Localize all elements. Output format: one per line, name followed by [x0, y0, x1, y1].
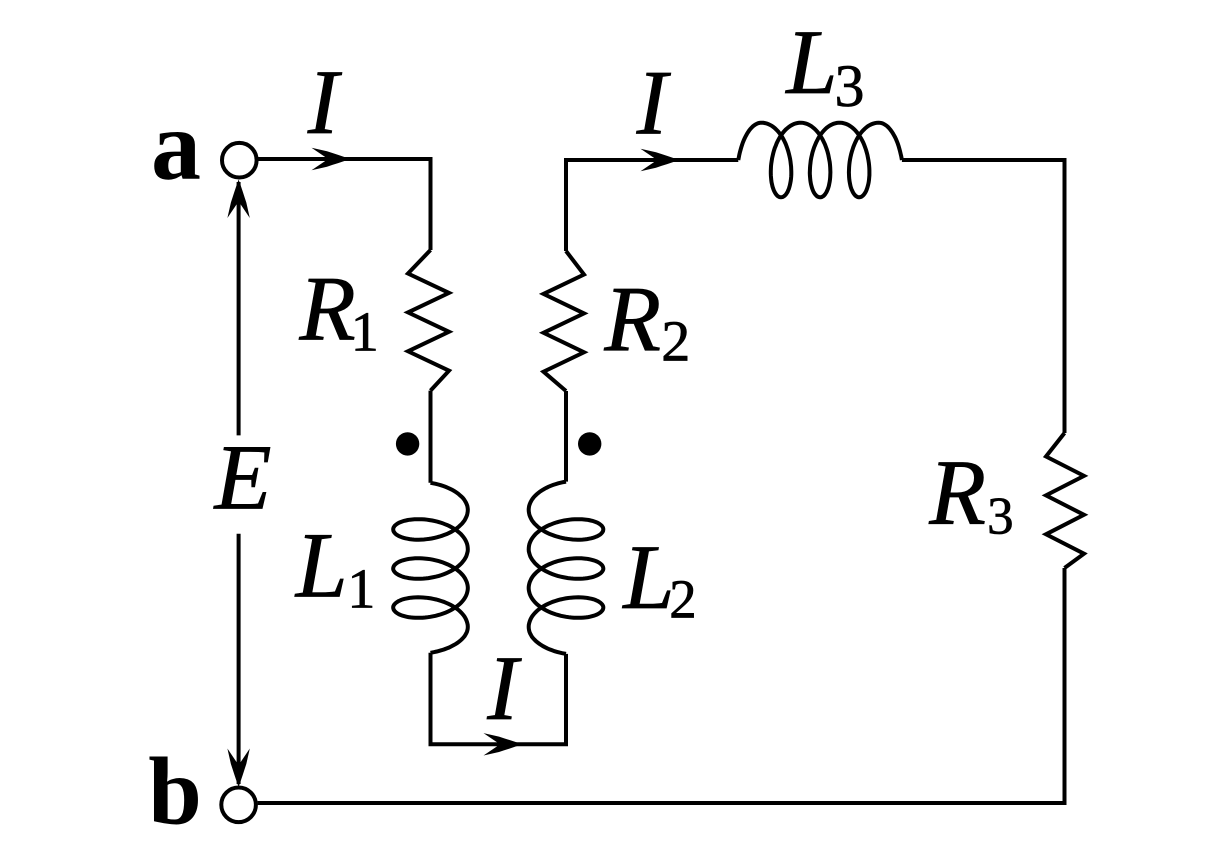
- svg-text:R: R: [928, 442, 986, 545]
- svg-text:L: L: [294, 515, 348, 618]
- svg-text:R: R: [603, 269, 661, 372]
- svg-text:L: L: [784, 11, 837, 113]
- svg-text:3: 3: [835, 53, 865, 119]
- svg-text:E: E: [213, 426, 272, 529]
- svg-text:2: 2: [661, 309, 690, 374]
- svg-text:1: 1: [351, 301, 379, 363]
- svg-text:R: R: [298, 258, 355, 360]
- svg-text:1: 1: [347, 559, 375, 621]
- svg-text:L: L: [621, 526, 674, 628]
- svg-text:b: b: [148, 738, 202, 845]
- svg-text:I: I: [636, 51, 672, 153]
- svg-text:I: I: [486, 638, 522, 740]
- svg-text:3: 3: [987, 488, 1014, 546]
- svg-text:2: 2: [669, 568, 696, 629]
- svg-text:a: a: [151, 90, 201, 201]
- svg-text:I: I: [307, 51, 343, 153]
